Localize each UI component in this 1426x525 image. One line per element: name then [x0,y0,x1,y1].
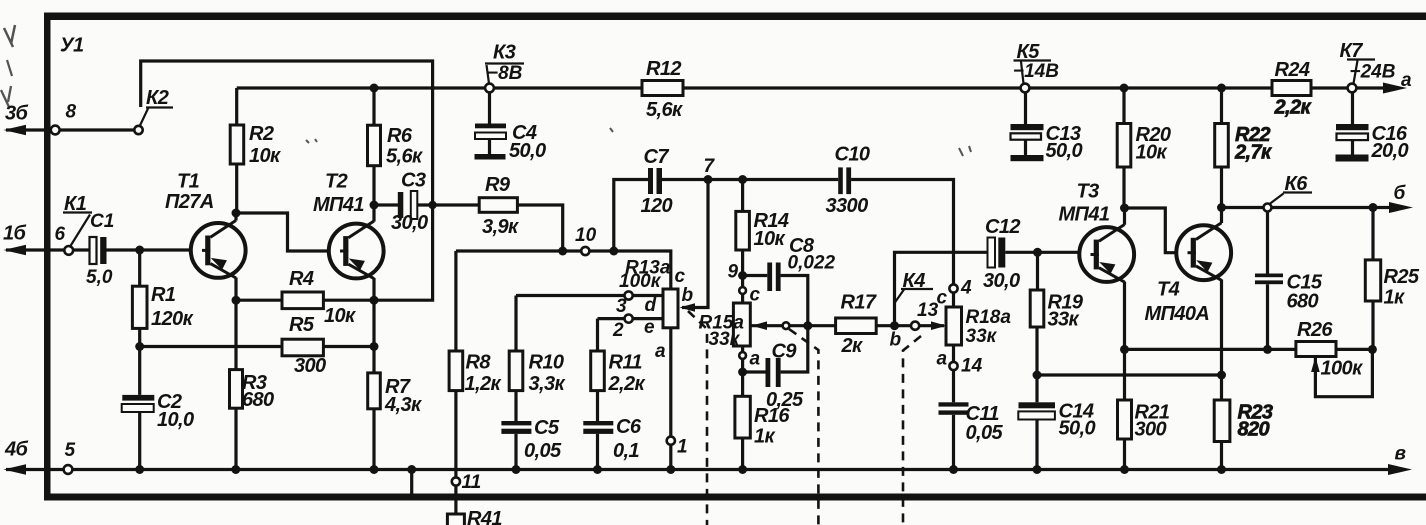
svg-text:30,0: 30,0 [983,270,1020,292]
svg-text:10: 10 [575,225,597,246]
svg-text:120к: 120к [151,308,194,330]
svg-text:b: b [682,285,694,306]
svg-text:R11: R11 [609,352,643,374]
svg-text:К3: К3 [493,42,516,64]
svg-text:R1: R1 [151,284,176,306]
svg-text:С7: С7 [644,146,670,168]
svg-text:Т2: Т2 [325,171,348,193]
svg-text:0,05: 0,05 [524,440,562,462]
svg-text:3: 3 [616,296,627,317]
svg-text:1к: 1к [754,426,776,448]
svg-text:7: 7 [704,156,716,177]
svg-text:33к: 33к [1048,309,1080,331]
svg-text:1б: 1б [3,223,27,245]
svg-text:С5: С5 [534,417,560,439]
svg-text:а: а [655,341,666,362]
svg-text:С6: С6 [616,416,642,438]
svg-text:33к: 33к [709,329,741,350]
svg-text:d: d [645,295,657,316]
svg-text:4: 4 [960,278,972,299]
svg-text:10к: 10к [1136,142,1168,164]
svg-text:с: с [750,285,761,306]
svg-text:2,2к: 2,2к [1274,97,1312,119]
svg-text:10к: 10к [754,228,786,250]
svg-text:R9: R9 [485,174,511,196]
svg-text:а: а [750,349,761,370]
svg-text:МП41: МП41 [313,194,364,216]
svg-text:100к: 100к [619,271,662,292]
svg-text:10,0: 10,0 [157,409,194,431]
svg-text:−8В: −8В [487,63,523,84]
svg-text:R12: R12 [646,58,681,80]
svg-text:С10: С10 [835,144,870,166]
svg-text:−14В: −14В [1013,61,1059,82]
svg-text:2к: 2к [841,335,864,357]
svg-text:R4: R4 [289,268,314,290]
svg-text:120: 120 [641,195,673,217]
svg-text:R8: R8 [466,352,492,374]
svg-text:5,6к: 5,6к [646,99,683,121]
svg-text:8: 8 [66,102,77,123]
svg-text:b: b [890,330,902,351]
svg-text:0,05: 0,05 [966,422,1004,444]
svg-text:2: 2 [612,320,624,341]
svg-text:с: с [937,288,948,309]
svg-text:R25: R25 [1384,266,1420,288]
svg-text:в: в [1395,444,1406,465]
svg-text:20,0: 20,0 [1371,140,1409,162]
svg-text:4б: 4б [4,439,29,461]
svg-text:300: 300 [1135,419,1167,441]
svg-text:50,0: 50,0 [509,140,546,162]
svg-text:a: a [1401,70,1412,91]
svg-text:R16: R16 [754,405,790,427]
svg-text:33к: 33к [966,326,998,347]
svg-text:Т3: Т3 [1077,181,1100,203]
svg-text:R18а: R18а [966,307,1012,328]
svg-text:5,0: 5,0 [86,267,113,288]
svg-text:1: 1 [677,437,688,458]
svg-text:е: е [644,317,655,338]
svg-text:3300: 3300 [826,195,869,217]
svg-text:9: 9 [728,262,739,283]
svg-text:10к: 10к [249,145,281,167]
svg-text:3,9к: 3,9к [482,216,519,238]
svg-text:С12: С12 [985,216,1020,238]
svg-text:R41: R41 [467,508,502,525]
svg-text:680: 680 [242,389,274,411]
svg-text:4,3к: 4,3к [384,394,422,416]
svg-text:С9: С9 [772,341,798,363]
svg-text:1к: 1к [1384,287,1406,309]
svg-text:10к: 10к [324,305,356,327]
svg-text:с: с [675,266,686,287]
svg-text:С3: С3 [401,170,426,192]
svg-text:R5: R5 [289,314,315,336]
svg-text:R26: R26 [1297,319,1333,341]
svg-text:R24: R24 [1275,59,1310,81]
svg-text:50,0: 50,0 [1059,418,1096,440]
svg-text:5,6к: 5,6к [386,146,423,168]
svg-text:а: а [937,349,948,370]
svg-text:К2: К2 [146,87,169,109]
svg-text:14: 14 [961,356,983,377]
svg-text:2,7к: 2,7к [1234,142,1272,164]
svg-text:С1: С1 [90,211,114,232]
svg-text:Т4: Т4 [1157,279,1180,301]
svg-text:МП41: МП41 [1059,204,1110,226]
svg-text:11: 11 [462,472,482,493]
svg-text:R6: R6 [387,125,413,147]
svg-text:0,022: 0,022 [788,253,836,274]
svg-text:МП40А: МП40А [1145,303,1210,325]
svg-text:0,1: 0,1 [613,440,639,462]
svg-text:13: 13 [917,300,939,321]
svg-text:1,2к: 1,2к [465,373,502,395]
svg-text:R17: R17 [841,292,877,314]
svg-text:100к: 100к [1321,358,1364,380]
svg-text:820: 820 [1238,419,1270,441]
svg-text:300: 300 [294,355,326,377]
svg-text:У1: У1 [60,35,84,57]
svg-text:6: 6 [55,224,66,245]
svg-text:50,0: 50,0 [1046,140,1083,162]
svg-text:б: б [1394,183,1407,204]
svg-text:5: 5 [65,440,76,461]
svg-text:П27А: П27А [165,191,214,213]
svg-text:30,0: 30,0 [391,212,428,234]
svg-text:Т1: Т1 [177,171,200,193]
svg-text:2,2к: 2,2к [608,373,646,395]
svg-text:680: 680 [1287,291,1319,313]
svg-text:3,3к: 3,3к [529,373,566,395]
svg-text:R2: R2 [249,123,274,145]
svg-text:R10: R10 [529,352,564,374]
